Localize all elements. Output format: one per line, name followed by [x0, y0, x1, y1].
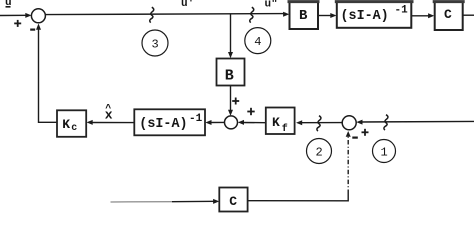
cut mark 1 on right input line [384, 115, 388, 130]
arrowhead: into S1 from left [25, 13, 31, 18]
arrowhead: left into Kf right edge [296, 120, 302, 125]
arrowhead: left into Kc right edge [87, 120, 93, 125]
wire: C2 output right then up (solid corner) [248, 194, 348, 201]
svg-text:^: ^ [105, 103, 111, 115]
svg-text:u: u [5, 0, 12, 9]
cut mark 4 on top line [250, 7, 254, 22]
svg-text:c: c [71, 123, 77, 134]
sign + at S1 input [14, 20, 21, 27]
block C2 (observer output matrix, bottom) [219, 188, 247, 212]
block (sI-A)^-1 (observer dynamics, middle) [134, 109, 205, 135]
wire: Kc output left then up to S1 minus input [39, 28, 57, 123]
wire: S3 output left to Kf [300, 122, 343, 124]
sign - at S1 feedback [30, 29, 35, 31]
arrowhead: into top (sI-A)^-1 [330, 13, 336, 18]
circled number 1 [373, 140, 396, 163]
wire: bottom feed into C2 (darker right part) [172, 200, 216, 202]
arrowhead: left into mid (sI-A)^-1 right edge [205, 120, 211, 125]
arrowhead: up into S3 bottom (from C2) [346, 131, 351, 137]
sign - at S3 bottom input [352, 137, 358, 139]
arrowhead: left into S2 right side (from Kf) [238, 120, 244, 125]
svg-text:K: K [62, 117, 70, 132]
block Kf (observer gain) [266, 108, 295, 136]
circled number 2 [307, 139, 332, 164]
svg-text:B: B [299, 8, 308, 24]
wire: C1 output to right edge [463, 14, 474, 16]
wire: observer B output down to mid summing junction S2 [230, 86, 232, 114]
label u (underlined input) [5, 0, 12, 9]
cut mark 2 on Kf line [317, 116, 321, 131]
wire: mid (sI-A)^-1 output xhat to Kc [90, 122, 134, 124]
summing junction S1 (top left) [31, 9, 45, 23]
svg-text:-1: -1 [189, 113, 203, 125]
svg-text:4: 4 [254, 35, 261, 49]
wire: S2 output left to mid (sI-A)^-1 [209, 121, 225, 123]
svg-text:C: C [229, 194, 237, 209]
wire: Kf output left to S2 [241, 122, 266, 124]
wire: right edge input y to right summing junction S3 [360, 120, 474, 123]
block C1 (plant output matrix C, top) [433, 2, 465, 30]
svg-text:(sI-A): (sI-A) [139, 117, 187, 132]
arrowhead: into block B1 [283, 12, 289, 17]
sign + above S2 (from B) [232, 98, 239, 105]
block Kc (controller gain) [57, 110, 86, 137]
svg-text:u": u" [265, 0, 278, 11]
label xhat [105, 103, 113, 123]
block (sI-A)^-1 (plant, top) [335, 2, 414, 28]
circled number 3 [142, 30, 168, 56]
svg-text:u': u' [181, 0, 194, 10]
wire: top (sI-A)^-1 to C1 [412, 15, 432, 17]
wire: input u into left summing junction [0, 14, 28, 16]
svg-text:B: B [225, 68, 234, 85]
sign + at S2 right (from Kf) [247, 108, 254, 115]
arrowhead: down into S2 top [228, 110, 233, 116]
arrowhead: right into C2 left edge [213, 199, 219, 204]
arrowhead: up into S1 bottom (Kc feedback) [36, 24, 41, 30]
wire: branch down from top line to observer B block [230, 14, 232, 55]
block B1 (plant input matrix B, top) [288, 2, 320, 29]
circled number 4 [245, 28, 271, 54]
summing junction S2 (middle) [225, 116, 238, 129]
wire: bottom feed into C2 (faint left part) [111, 201, 173, 203]
block B (observer input matrix, middle) [217, 59, 245, 86]
svg-text:C: C [444, 7, 452, 22]
arrowhead: down into observer B [228, 52, 233, 58]
wire: B1 to top (sI-A)^-1 [319, 15, 334, 17]
svg-text:f: f [282, 123, 288, 135]
svg-text:1: 1 [381, 146, 388, 160]
svg-text:3: 3 [152, 38, 159, 52]
wire: top line from summing junction S1 to block B1 [46, 14, 287, 15]
cut mark 3 on top line [150, 7, 154, 22]
sign + at S3 right input [362, 129, 369, 136]
svg-text:K: K [272, 115, 280, 130]
svg-text:-1: -1 [395, 4, 409, 16]
arrowhead: left into S3 right side (from edge) [356, 120, 362, 125]
arrowhead: into C1 [428, 13, 434, 18]
svg-text:2: 2 [316, 146, 323, 160]
wire: dash-dot vertical from C2 path up to S3 minus input [347, 135, 349, 195]
svg-text:(sI-A): (sI-A) [341, 9, 389, 24]
summing junction S3 (right) [342, 116, 356, 130]
